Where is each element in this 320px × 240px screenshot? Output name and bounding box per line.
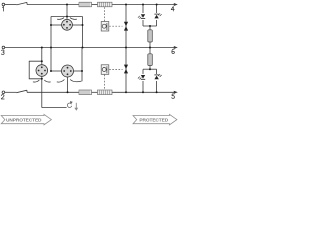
svg-text:PROTECTED: PROTECTED xyxy=(139,118,168,124)
svg-text:UNPROTECTED: UNPROTECTED xyxy=(6,118,42,124)
